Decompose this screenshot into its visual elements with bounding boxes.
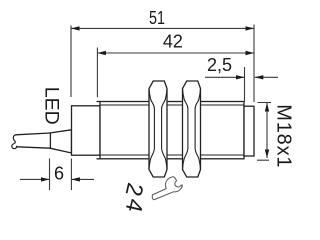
arrowhead 6 right bbox=[71, 177, 80, 181]
arrowhead M18x1 bottom bbox=[265, 150, 269, 159]
svg-text:51: 51 bbox=[149, 8, 165, 28]
cable break squiggle bbox=[12, 135, 17, 149]
rear housing bbox=[72, 106, 101, 155]
extension line 6 left bbox=[49, 159, 51, 191]
dimension line M18x1 diameter bbox=[266, 103, 268, 158]
svg-text:M18x1: M18x1 bbox=[272, 104, 294, 168]
dimension line 51 bbox=[71, 27, 254, 29]
svg-text:LED: LED bbox=[41, 87, 63, 125]
extension line 42 left bbox=[96, 48, 98, 98]
arrowhead 2,5 right bbox=[255, 75, 263, 79]
arrowhead 51 right bbox=[246, 26, 255, 30]
arrowhead M18x1 top bbox=[265, 103, 269, 112]
dimension line 42 bbox=[97, 52, 254, 54]
threaded barrel body bbox=[100, 102, 244, 159]
barrel outer line stubs left of junction bbox=[97, 102, 101, 159]
extension ticks M18x1 bbox=[257, 103, 271, 161]
wrench icon bbox=[152, 177, 182, 200]
extension line 2,5 left bbox=[244, 67, 246, 102]
hex nut 2 bbox=[183, 81, 201, 177]
svg-text:24: 24 bbox=[120, 180, 149, 217]
arrowhead 2,5 left bbox=[236, 75, 245, 79]
cable bottom edge bbox=[17, 147, 50, 148]
arrowhead 42 left bbox=[97, 51, 106, 55]
front sensing cap bbox=[244, 106, 254, 156]
strain relief gland bbox=[50, 130, 71, 153]
svg-text:42: 42 bbox=[163, 32, 183, 52]
arrowhead 6 left bbox=[41, 177, 50, 181]
extension line right common 51/42/2,5 bbox=[253, 25, 255, 103]
svg-text:2,5: 2,5 bbox=[207, 55, 232, 75]
arrowhead 51 left bbox=[71, 26, 80, 30]
hex nut 1 bbox=[149, 81, 167, 177]
dimension lines 6 bbox=[20, 178, 94, 180]
dimension lines 2,5 bbox=[205, 76, 278, 78]
arrowhead 42 right bbox=[246, 51, 255, 55]
svg-text:6: 6 bbox=[54, 164, 64, 184]
extension line 51 left bbox=[70, 25, 72, 97]
extension line 6 right bbox=[70, 159, 72, 191]
cable top edge bbox=[16, 133, 51, 135]
thread minor-diameter lines bbox=[100, 105, 244, 155]
